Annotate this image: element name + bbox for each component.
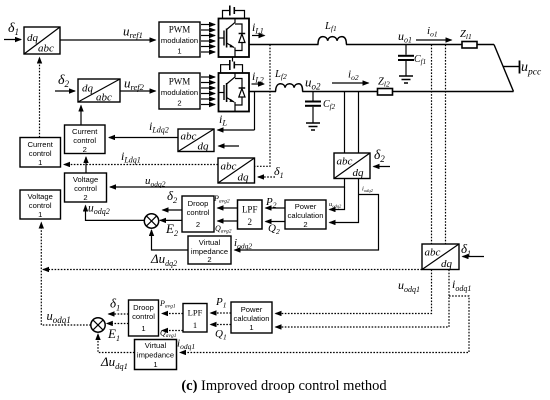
svg-text:Cf2: Cf2	[323, 99, 336, 111]
svg-text:Lf2: Lf2	[274, 69, 287, 81]
wire delta1 dotted into abc/dq D	[463, 256, 485, 258]
svg-text:uo2: uo2	[305, 75, 321, 92]
svg-text:uodq1: uodq1	[47, 309, 71, 325]
capacitor Cf1	[398, 45, 414, 76]
wire Q_avg2 LPF2 to droop2	[218, 220, 238, 222]
node delta1 label (right)	[461, 241, 471, 258]
label i_odq1 (at VI1)	[177, 338, 195, 352]
label iLdq2	[149, 119, 169, 135]
svg-text:2: 2	[177, 99, 181, 108]
svg-text:dq: dq	[82, 83, 94, 95]
wire u_ref1 : dq/abc1 to PWM1	[60, 39, 156, 41]
svg-text:control: control	[132, 312, 155, 321]
svg-text:Q2: Q2	[268, 223, 280, 237]
wire u_odq2 into power calc 2	[330, 187, 345, 210]
label Q1	[215, 328, 227, 342]
svg-text:(c) Improved droop control met: (c) Improved droop control method	[181, 378, 387, 394]
wire voltage control 1 reference chain dotted	[41, 223, 91, 326]
svg-text:modulation: modulation	[161, 36, 198, 45]
svg-text:E1: E1	[107, 326, 120, 343]
svg-text:Current: Current	[28, 140, 54, 149]
svg-text:Zl1: Zl1	[460, 29, 472, 41]
svg-text:Q1: Q1	[215, 328, 227, 342]
svg-text:uref2: uref2	[124, 76, 145, 93]
svg-text:abc: abc	[337, 156, 353, 168]
svg-text:δ2: δ2	[374, 147, 385, 164]
label u_ref1	[123, 24, 143, 41]
svg-text:uo1: uo1	[398, 29, 412, 45]
svg-text:dq: dq	[198, 141, 210, 153]
svg-text:control: control	[29, 201, 52, 210]
svg-text:abc: abc	[181, 131, 197, 143]
svg-text:iodq1: iodq1	[177, 338, 195, 352]
svg-text:uref1: uref1	[123, 24, 143, 41]
label iL	[219, 112, 227, 128]
node delta1 output label	[110, 296, 120, 313]
wire Current control 1 to dq/abc1 dotted up	[39, 58, 41, 138]
svg-text:1: 1	[141, 324, 145, 333]
svg-text:upcc: upcc	[521, 60, 542, 78]
svg-text:2: 2	[83, 193, 87, 202]
svg-text:Power: Power	[295, 202, 317, 211]
label i_odq2 (small, near abc/dq C)	[362, 186, 374, 194]
block Voltage control 2	[65, 173, 107, 202]
label E2	[165, 221, 178, 238]
svg-text:2: 2	[83, 145, 87, 154]
block Virtual impedance 1	[135, 340, 177, 370]
svg-text:dq: dq	[238, 172, 250, 184]
converter block abc/dq C (delta2)	[334, 153, 370, 179]
block LPF 1	[183, 304, 207, 333]
wire delta2 out of Droop control 2	[163, 209, 183, 211]
converter block abc/dq B (iL1 to iLdq1, delta1)	[218, 158, 255, 184]
svg-text:Zl2: Zl2	[378, 77, 390, 89]
svg-text:Current: Current	[72, 127, 98, 136]
node delta2 output label	[167, 188, 178, 205]
wire E1 dotted out of droop control 1 into summing junction 1	[107, 323, 129, 325]
svg-text:P1: P1	[215, 296, 226, 310]
wire Q1 dotted power calc 1 to LPF1	[211, 324, 232, 326]
wire Current control 2 to dq/abc2 up	[80, 106, 82, 126]
wire Zl1 to bus	[477, 44, 494, 46]
svg-text:2: 2	[207, 255, 211, 264]
block Current control 2	[65, 125, 106, 154]
svg-text:iL2: iL2	[252, 69, 264, 85]
svg-text:Qavg1: Qavg1	[160, 329, 177, 340]
label io2 with arrow	[348, 69, 359, 83]
block PWM modulation 1	[159, 22, 200, 57]
label i_odq2 (at VI2)	[234, 237, 252, 251]
svg-text:1: 1	[38, 158, 42, 167]
wire Zl2 to bus bottom	[393, 91, 514, 93]
svg-text:Virtual: Virtual	[145, 341, 167, 350]
converter block abc/dq A (iL to iLdq2)	[178, 129, 214, 153]
svg-text:Droop: Droop	[133, 303, 154, 312]
label delta-u_dq2	[150, 251, 177, 268]
svg-text:δ1: δ1	[461, 241, 471, 258]
label Q2	[268, 223, 280, 237]
wire Q_avg1 dotted LPF1 to droop1	[162, 330, 183, 332]
svg-text:δ1: δ1	[8, 21, 19, 37]
svg-text:Droop: Droop	[188, 199, 209, 208]
svg-text:P2: P2	[265, 196, 277, 210]
wire P_avg2 LPF2 to droop2	[218, 207, 238, 209]
svg-text:Pavg2: Pavg2	[213, 194, 230, 205]
svg-text:δ2: δ2	[167, 188, 178, 205]
label u_odq2 (ref into vc2)	[88, 203, 110, 217]
block Power calculation 1	[231, 302, 272, 333]
svg-text:iodq1: iodq1	[452, 277, 471, 293]
svg-text:δ1: δ1	[274, 164, 284, 180]
svg-text:Voltage: Voltage	[28, 192, 53, 201]
label P_avg1	[159, 299, 176, 310]
wire u_odq1 long dotted feedback to voltage control 1 line	[43, 269, 422, 271]
svg-text:iodq2: iodq2	[362, 186, 374, 194]
wire inverter2 output to Lf2	[249, 91, 276, 93]
wire P1 dotted power calc 1 to LPF1	[211, 312, 232, 314]
label Q_avg2	[215, 224, 232, 235]
wire iL into abc/dq block A	[218, 129, 255, 131]
label iLdq1	[121, 149, 141, 165]
svg-text:2: 2	[247, 217, 252, 227]
node uo2 label	[305, 75, 321, 92]
label u_odq1 (under abc/dq D)	[398, 278, 420, 294]
wire stub arrow into abc/dq block A right (lower)	[219, 145, 240, 147]
label u_odq1 (ref)	[47, 309, 71, 325]
impedance Zl1	[462, 42, 477, 49]
svg-text:Pavg1: Pavg1	[159, 299, 176, 310]
svg-text:1: 1	[193, 320, 197, 330]
svg-text:abc: abc	[38, 43, 54, 55]
svg-text:iL: iL	[219, 112, 227, 128]
svg-text:dq: dq	[353, 167, 365, 179]
ground under Cf2	[306, 123, 320, 130]
svg-text:abc: abc	[221, 161, 237, 173]
wire uo1 measurement dotted down to abc/dq D	[431, 45, 433, 245]
wire Lf1 to Zl1	[346, 44, 462, 46]
svg-text:LPF: LPF	[188, 308, 203, 318]
wire iL tap from wire2 down	[254, 92, 256, 131]
svg-text:PWM: PWM	[169, 25, 191, 35]
svg-text:1: 1	[177, 47, 181, 56]
wires gate pulses PWM2 to inverter2 (6 arrows)	[201, 77, 215, 105]
label P1	[215, 296, 226, 310]
svg-text:Voltage: Voltage	[73, 175, 98, 184]
wire io2 tap down to abc/dq C	[358, 92, 360, 154]
block Current control 1	[20, 138, 61, 168]
converter block dq/abc 2	[78, 79, 120, 104]
wire delta-u_dq1 dotted from VI1 into summing junction 1	[98, 334, 135, 353]
wire Voltage control 2 to Current control 2	[85, 157, 87, 173]
node delta2 label (mid)	[374, 147, 385, 164]
wire u_odq2 feedback into Voltage control 2	[110, 179, 345, 188]
svg-text:iL1: iL1	[252, 20, 264, 36]
wire delta1 into dq/abc 1	[4, 39, 21, 41]
wire delta2 into dq/abc 2	[55, 90, 75, 92]
caption	[181, 378, 387, 394]
wire delta-u_dq2 from VI2 into summing junction 2	[152, 230, 189, 250]
impedance Zl2	[378, 89, 393, 96]
label u_odq2 (on feedback line)	[145, 175, 166, 189]
block Droop control 2	[182, 196, 214, 232]
node delta1 label (mid)	[274, 164, 284, 180]
block PWM modulation 2	[159, 73, 200, 109]
transistor bridge inverter 2	[219, 73, 250, 112]
svg-text:dq: dq	[27, 32, 39, 44]
bus slant edge (PCC busbar)	[494, 45, 514, 92]
wire io1 measurement dotted down to abc/dq D	[445, 45, 447, 245]
svg-text:PWM: PWM	[169, 77, 191, 87]
label i_odq1 (under abc/dq D)	[452, 277, 471, 293]
wires gate pulses PWM1 to inverter1 (6 arrows)	[201, 25, 215, 53]
wire P2 power calc 2 to LPF2	[266, 207, 286, 209]
svg-text:Virtual: Virtual	[199, 238, 221, 247]
wire iLdq1 dotted to Current control 1	[64, 164, 218, 166]
svg-text:Lf1: Lf1	[324, 21, 337, 33]
svg-text:iLdq2: iLdq2	[149, 119, 169, 135]
block Voltage control 1	[20, 190, 61, 219]
svg-text:impedance: impedance	[137, 351, 174, 360]
wire summing junction 2 output to Voltage control 2	[86, 206, 145, 221]
wire Lf2 to Zl2	[302, 91, 377, 93]
wire i_odq1 dotted into power calculation 1	[276, 270, 450, 328]
label iL1 with arrow	[252, 20, 264, 36]
svg-text:dq: dq	[441, 258, 453, 270]
svg-text:abc: abc	[96, 92, 112, 104]
transistor bridge inverter 1	[219, 19, 250, 58]
svg-text:abc: abc	[425, 247, 441, 259]
summing junction 1 (circle with X)	[91, 318, 105, 332]
wire u_odq1 dotted into power calculation 1	[276, 270, 432, 314]
wire E2 out of Droop control 2 into summing junction 2	[160, 219, 182, 221]
svg-text:modulation: modulation	[161, 88, 198, 97]
wire u_ref2 : dq/abc2 to PWM2	[120, 90, 156, 92]
wire uo2 tap down to abc/dq C	[344, 92, 346, 154]
svg-text:1: 1	[38, 210, 42, 219]
svg-text:uodq2: uodq2	[145, 175, 166, 189]
svg-text:iodq2: iodq2	[234, 237, 252, 251]
wire Q2 power calc 2 to LPF2	[266, 221, 286, 223]
svg-text:control: control	[74, 184, 97, 193]
node delta2 label	[58, 73, 70, 89]
svg-text:Δudq1: Δudq1	[100, 354, 128, 371]
label delta-u_dq1	[100, 354, 128, 371]
wire i_odq2 branch to virtual impedance 2	[235, 195, 379, 251]
label P2	[265, 196, 277, 210]
converter block abc/dq D (delta1, right)	[422, 244, 459, 270]
svg-text:1: 1	[153, 360, 157, 369]
svg-text:control: control	[187, 208, 210, 217]
svg-text:Qavg2: Qavg2	[215, 224, 232, 235]
svg-text:Cf1: Cf1	[414, 54, 426, 66]
svg-text:δ2: δ2	[58, 73, 70, 89]
block Droop control 1	[129, 300, 159, 336]
svg-text:2: 2	[196, 220, 200, 229]
svg-text:Δudq2: Δudq2	[150, 251, 177, 268]
svg-text:iLdq1: iLdq1	[121, 149, 141, 165]
wire P_avg1 dotted LPF1 to droop1	[162, 313, 183, 315]
svg-text:1: 1	[249, 323, 253, 332]
label E1	[107, 326, 120, 343]
svg-text:2: 2	[303, 220, 307, 229]
svg-text:δ1: δ1	[110, 296, 120, 313]
svg-text:io1: io1	[427, 25, 438, 39]
converter block dq/abc 1	[24, 27, 60, 55]
svg-text:calculation: calculation	[234, 314, 270, 323]
ground under Cf1	[399, 76, 413, 83]
wire inverter1 output to Lf1	[249, 44, 319, 46]
label iL2 with arrow	[252, 69, 264, 85]
svg-text:uodq1: uodq1	[398, 278, 420, 294]
inductor Lf2	[276, 84, 303, 92]
block LPF 2	[238, 200, 263, 229]
label u_ref2	[124, 76, 145, 93]
node delta1 label (top-left)	[8, 21, 19, 37]
svg-text:LPF: LPF	[242, 205, 258, 215]
capacitor DC-link between inverters	[221, 57, 243, 73]
svg-text:control: control	[29, 149, 52, 158]
wire i_odq2 into power calc 2	[330, 179, 359, 223]
block Virtual impedance 2	[188, 236, 231, 264]
wire iLdq2 to Current control 2	[109, 137, 178, 139]
wire delta2 into abc/dq C	[374, 166, 391, 168]
wire delta1 dotted out of droop control 1	[109, 313, 129, 315]
svg-text:calculation: calculation	[288, 211, 324, 220]
node u_pcc tap	[504, 61, 520, 74]
label Q_avg1	[160, 329, 177, 340]
svg-text:uodq2: uodq2	[88, 203, 110, 217]
svg-text:control: control	[73, 136, 96, 145]
label u_odq2 (small)	[329, 201, 342, 209]
label io1 with arrow	[427, 25, 438, 39]
capacitor Cf2	[305, 92, 321, 123]
node uo1 label	[398, 29, 412, 45]
svg-text:uodq2: uodq2	[329, 201, 342, 209]
wire i_odq1 dotted branch to virtual impedance 1	[180, 296, 469, 353]
svg-text:io2: io2	[348, 69, 359, 83]
wire delta1 dotted into abc/dq B	[258, 176, 275, 178]
label P_avg2	[213, 194, 230, 205]
svg-text:E2: E2	[165, 221, 178, 238]
svg-text:Power: Power	[241, 305, 263, 314]
inductor Lf1	[318, 37, 346, 45]
wire iL1 measurement dotted from wire1 down	[255, 45, 271, 167]
summing junction 2 (circle with X)	[144, 214, 158, 228]
capacitor DC-link above inverter 1	[223, 6, 245, 19]
block Power calculation 2	[285, 200, 326, 229]
